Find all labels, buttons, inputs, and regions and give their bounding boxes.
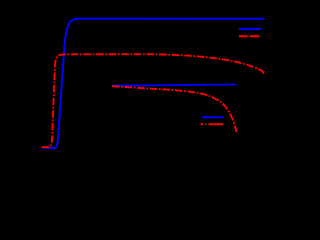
red curve 2 (dash-dot, droops to lower right) [112,86,236,132]
blue curve 1 (solid, rises to top plateau) [42,19,265,149]
legend 2 red sample [201,123,224,125]
blue curve 2 (solid short horizontal line) [113,85,237,86]
legend 2 blue sample [202,116,224,118]
red curve 1 (dash-dot, middle plateau, falls at right) [42,54,265,147]
legend 1 blue sample [239,28,261,30]
legend 1 red sample [239,35,259,37]
